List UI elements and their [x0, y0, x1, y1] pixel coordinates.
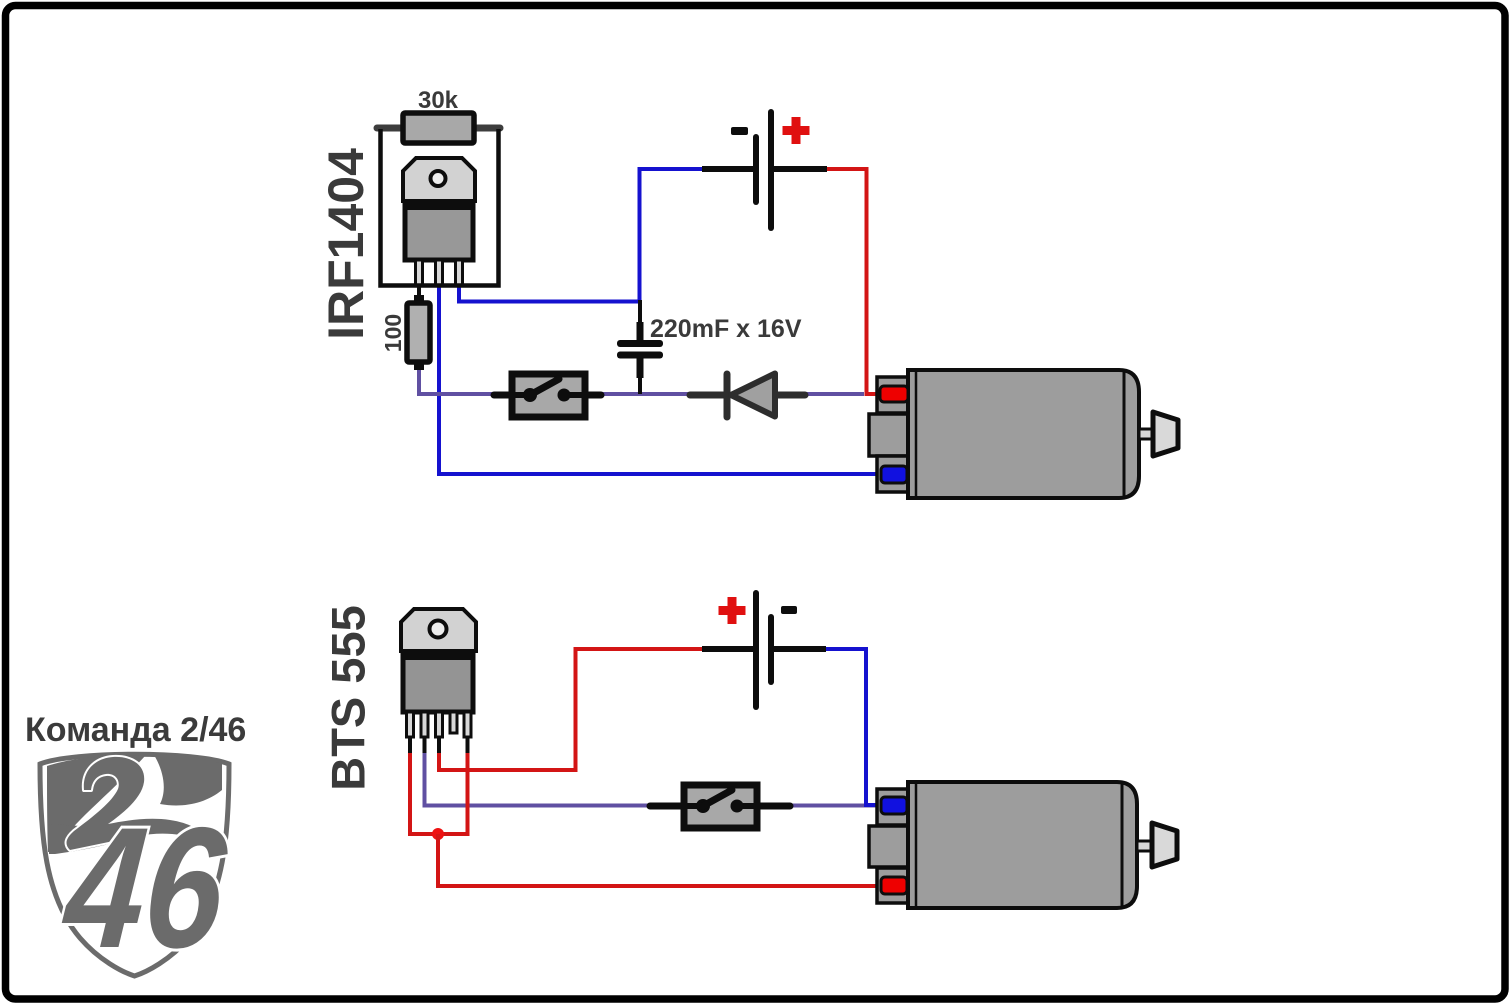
capacitor C1 top plate — [617, 340, 663, 347]
switch S1 inner leads — [512, 392, 530, 398]
motor M1 body — [908, 370, 1139, 498]
switch S2 box — [684, 785, 757, 828]
motor M1 left cap line — [915, 371, 918, 497]
battery BT2 wire stub left black — [702, 646, 757, 652]
transistor Q2 body — [403, 653, 473, 712]
switch S1 right stub — [582, 392, 601, 399]
motor M2 red terminal — [881, 877, 907, 894]
diode D1 right stub — [772, 392, 805, 399]
transistor Q1 tab — [403, 158, 475, 201]
motor M2 cone — [1152, 823, 1177, 867]
svg-text:Команда 2/46: Команда 2/46 — [25, 711, 246, 749]
resistor R2 100 bottom cap — [414, 360, 424, 370]
switch S2 left contact — [696, 799, 710, 813]
motor M1 middle block — [869, 414, 911, 456]
wire Q2 pin1 red down — [408, 751, 412, 836]
capacitor C1 bottom lead — [638, 358, 642, 394]
switch S2 right contact — [731, 800, 744, 813]
diode D1 triangle — [731, 374, 775, 417]
switch S1 lever — [530, 379, 559, 395]
resistor R1 30k — [403, 113, 474, 143]
battery BT2 short plate (negative) — [768, 617, 774, 682]
shield top-left dark mass — [47, 756, 145, 852]
motor M2 left cap line — [915, 783, 918, 907]
resistor R2 100 body — [407, 303, 430, 362]
wire Q2 pin3 red to battery plus — [439, 649, 704, 770]
wire gate pin to R2 — [417, 286, 421, 302]
battery BT1 short plate (negative) — [753, 137, 759, 202]
shield numeral 2 — [67, 757, 204, 850]
motor M2 top connector block — [877, 789, 911, 825]
battery BT2 long plate (positive) — [753, 593, 759, 707]
switch S2 lever — [703, 790, 732, 806]
motor M2 shaft — [1137, 841, 1152, 851]
transistor Q2 pin stubs — [408, 737, 412, 753]
motor M2 blue terminal — [881, 797, 907, 814]
wire junction to motor red — [438, 834, 882, 886]
motor M1 top connector block — [877, 377, 911, 413]
transistor Q1 body — [405, 203, 473, 260]
diode D1 left stub — [690, 392, 726, 399]
wire drain blue (middle pin down and to motor) — [439, 287, 882, 474]
transistor Q2 pin 5 — [464, 712, 471, 737]
transistor Q2 mounting hole — [430, 621, 447, 638]
wire pin3 to battery minus blue — [459, 169, 704, 302]
switch S2 left stub — [650, 803, 686, 810]
motor M1 shaft — [1139, 429, 1154, 439]
motor M1 cone — [1153, 412, 1178, 456]
shield lower-left dark wedge — [49, 824, 112, 854]
motor M1 red terminal — [880, 386, 908, 402]
motor M2 right cap line — [1121, 783, 1124, 907]
transistor Q2 tab — [401, 609, 476, 651]
wire red bus — [410, 832, 468, 836]
svg-text:100: 100 — [380, 314, 406, 352]
svg-text:30k: 30k — [418, 87, 459, 114]
battery BT2 plus label — [719, 597, 746, 624]
svg-text:220mF x 16V: 220mF x 16V — [650, 315, 802, 343]
wire source node purple — [419, 366, 864, 394]
transistor Q2 pin 4 (short) — [450, 712, 457, 733]
battery BT1 long plate (positive) — [768, 112, 774, 228]
switch S1 left stub — [494, 392, 515, 399]
switch S2 inner leads — [684, 803, 703, 809]
transistor Q2 pin 2 — [421, 712, 428, 737]
transistor Q1 pin 2 (drain) — [436, 260, 443, 286]
motor M2 bottom connector block — [877, 868, 911, 903]
wire Q2 pin5 red down — [466, 751, 470, 836]
svg-text:IRF1404: IRF1404 — [318, 148, 374, 340]
motor M2 body — [908, 782, 1137, 908]
motor M1 right cap line — [1123, 371, 1126, 497]
battery BT2 wire stub right black — [770, 646, 826, 652]
motor M1 blue terminal — [881, 466, 907, 483]
wire battery minus blue down to motor — [824, 649, 882, 805]
battery BT1 plus label — [783, 117, 810, 144]
motor M1 bottom connector block — [877, 456, 911, 492]
logo shield — [40, 754, 233, 984]
switch S2 right stub — [755, 803, 790, 810]
svg-text:BTS 555: BTS 555 — [322, 605, 375, 790]
wire battery plus red — [825, 169, 883, 394]
battery BT2 minus label — [781, 606, 797, 614]
transistor Q2 body top band — [403, 652, 473, 660]
resistor R2 100 top cap — [414, 295, 424, 305]
shield top-right dark wedge — [154, 755, 222, 806]
transistor Q1 body top band — [405, 202, 473, 210]
svg-text:46: 46 — [56, 792, 233, 984]
transistor Q1 mounting hole — [431, 171, 446, 186]
switch S1 right contact — [558, 389, 571, 402]
shield numeral 46 — [56, 792, 233, 984]
battery BT1 minus label — [731, 127, 748, 135]
motor M2 middle block — [869, 826, 911, 867]
diode D1 cathode bar — [724, 374, 731, 417]
wire Q2 pin2 purple to switch and motor — [425, 751, 881, 806]
capacitor C1 bottom plate — [617, 352, 663, 359]
wire gate-loop top (through 30k) — [377, 125, 500, 132]
transistor Q1 pin 1 (gate) — [416, 260, 423, 286]
switch S1 left contact — [523, 388, 537, 402]
wire gate loop box — [381, 129, 499, 286]
battery BT1 wire stub left black — [702, 166, 757, 172]
switch S1 box — [512, 374, 585, 417]
capacitor C1 top lead — [638, 300, 642, 341]
transistor Q1 pin 3 (source) — [456, 260, 463, 286]
transistor Q2 pin 1 — [407, 712, 414, 737]
junction node red dot — [432, 828, 444, 840]
battery BT1 wire stub right black — [770, 166, 827, 172]
shield outline — [40, 754, 229, 976]
transistor Q2 pin 3 — [436, 712, 443, 737]
